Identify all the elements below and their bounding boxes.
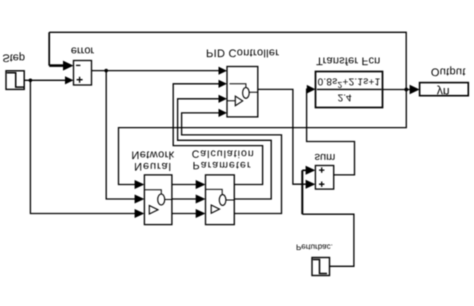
PID icon internal wire	[227, 84, 258, 101]
NN icon triangle	[149, 206, 158, 215]
block yn (Output)	[420, 83, 469, 96]
sum plus bottom	[319, 167, 324, 172]
plus sign (top input)	[77, 77, 83, 83]
svg-text:Transfer Fcn: Transfer Fcn	[316, 55, 380, 67]
sum plus top	[319, 182, 324, 187]
node J1 (branch of step output)	[29, 79, 33, 83]
division line	[317, 88, 382, 90]
node J3	[404, 88, 408, 92]
NN icon ellipse	[158, 194, 165, 205]
svg-text:yn: yn	[437, 85, 450, 99]
wire W13: Perturbac to sum input 1	[302, 214, 354, 266]
wire W10: PC out2 to PID input 3	[178, 99, 272, 199]
PC icon ellipse	[219, 195, 226, 206]
block PID Controller	[227, 67, 258, 117]
svg-text:Neural: Neural	[134, 160, 172, 172]
wire W12: PID output down to sum input 2	[258, 89, 307, 184]
node J2	[104, 69, 108, 73]
whole diagram drawn in normal orientation, then vertically mirrored	[2, 32, 468, 275]
block Perturbac	[312, 258, 330, 276]
step icon	[7, 73, 24, 87]
svg-text:sum: sum	[315, 151, 336, 163]
svg-text:error: error	[71, 44, 95, 56]
block error sum	[74, 61, 92, 86]
block Transfer Fcn	[316, 72, 383, 108]
svg-text:Calculation: Calculation	[192, 148, 255, 160]
svg-text:Perturbac.: Perturbac.	[296, 243, 333, 252]
block Parameter Calculation	[206, 175, 235, 225]
svg-text:PID Controller: PID Controller	[206, 46, 279, 58]
PID icon ellipse	[243, 87, 250, 98]
wire W6: Transfer Fcn output to yn	[383, 89, 412, 91]
wire W3: output feedback to error minus input	[49, 32, 406, 90]
NN icon elbow line	[145, 190, 172, 200]
svg-text:2.4: 2.4	[338, 92, 352, 103]
block Neural Network	[144, 175, 172, 225]
minus sign (bottom input)	[76, 64, 80, 66]
svg-text:Network: Network	[131, 148, 174, 160]
PID icon triangle	[235, 96, 242, 106]
block sum	[315, 166, 333, 190]
svg-text:Step: Step	[2, 52, 25, 64]
wire W2: step branch down to Neural Network input 3	[30, 80, 135, 213]
wire W4: error to PID input 1	[92, 70, 220, 72]
wires W8: NN outputs to Parameter Calculation inputs	[172, 185, 197, 214]
arrowhead into error + input	[65, 76, 74, 84]
wire W11: PC out3 to PID input 4	[182, 113, 282, 214]
svg-text:Parameter: Parameter	[193, 159, 252, 171]
svg-text:Output: Output	[431, 66, 466, 78]
wire W5: error branch down to NN input 2	[106, 71, 135, 199]
wire W9: PC out1 to PID input 2	[173, 84, 262, 185]
perturbac step icon	[313, 260, 327, 274]
wire W7: output feedback down to NN input 1	[119, 90, 407, 185]
block Step	[6, 71, 24, 90]
PC icon elbow line	[206, 189, 235, 200]
PC icon triangle	[211, 205, 219, 213]
wire W14: sum output up to Transfer Fcn input	[307, 89, 355, 175]
wire W1: Step to error sum	[24, 79, 65, 81]
